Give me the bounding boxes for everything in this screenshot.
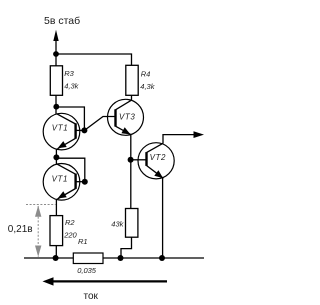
node rail 43k	[118, 255, 124, 261]
wire VT3 emitter down to 43k	[130, 135, 132, 209]
svg-text:ток: ток	[84, 291, 99, 302]
node B base of VT1	[81, 127, 87, 133]
transistor VT2	[138, 143, 174, 179]
wire node B to VT3 base	[84, 117, 115, 131]
wire +5V vertical	[55, 41, 57, 66]
bottom rail	[24, 257, 204, 259]
svg-text:R2: R2	[65, 218, 75, 227]
svg-text:4,3k: 4,3k	[140, 82, 155, 91]
resistor 43k	[126, 209, 138, 238]
wire VT2 emitter to rail	[162, 178, 164, 258]
wire node E to VT2 base	[131, 159, 139, 161]
transistor VT3	[108, 99, 144, 135]
svg-text:R1: R1	[78, 237, 88, 246]
wire +5V horizontal to R4	[56, 54, 132, 65]
svg-text:4,3k: 4,3k	[64, 82, 79, 91]
svg-text:43k: 43k	[111, 220, 124, 229]
wire R2 to rail	[55, 246, 57, 258]
svg-text:VT3: VT3	[119, 113, 135, 122]
svg-text:0,035: 0,035	[77, 266, 97, 275]
node E base of VT2	[128, 157, 134, 163]
node rail R2	[53, 255, 59, 261]
wire VT1' emitter to R2	[55, 199, 57, 216]
transistor VT1 (upper, diode-connected)	[43, 113, 82, 150]
svg-text:R4: R4	[141, 69, 151, 78]
svg-text:5в стаб: 5в стаб	[44, 15, 80, 27]
svg-text:R3: R3	[64, 69, 74, 78]
resistor R4	[126, 65, 138, 95]
node +5V junction	[53, 51, 59, 57]
svg-text:VT1: VT1	[52, 124, 68, 133]
current arrow ток	[50, 280, 167, 282]
output arrow right	[194, 131, 205, 138]
wire VT1 emitter to VT1' collector	[55, 149, 57, 165]
resistor R3	[50, 66, 62, 96]
transistor VT1 (lower, diode-connected)	[43, 164, 82, 201]
wire R3 to VT1 collector	[55, 95, 57, 114]
wire VT2 collector to output	[163, 135, 195, 144]
wire 43k to rail	[121, 237, 132, 258]
power arrow up	[53, 30, 58, 41]
node A collector-base tie of VT1	[53, 104, 59, 110]
node C	[53, 154, 59, 160]
svg-text:220: 220	[63, 231, 77, 240]
svg-text:VT2: VT2	[150, 153, 166, 162]
svg-text:VT1: VT1	[52, 174, 68, 183]
svg-text:0,21в: 0,21в	[8, 224, 33, 235]
dimension 0,21в	[26, 205, 56, 258]
resistor R2	[50, 216, 63, 246]
wire collector-base loop of VT1'	[56, 158, 84, 182]
node D base of VT1'	[82, 179, 88, 185]
wire R4 to VT3 collector	[131, 95, 133, 100]
wire collector-base loop of VT1	[56, 107, 84, 130]
node rail VT2 emitter	[159, 255, 165, 261]
shunt resistor R1 0,035	[73, 253, 103, 264]
